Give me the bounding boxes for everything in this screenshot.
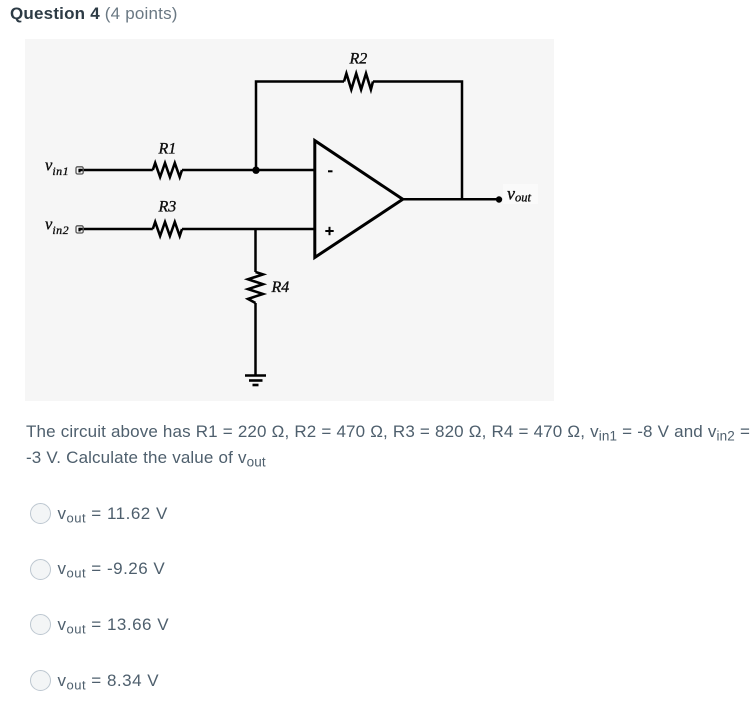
svg-text:R3: R3 (158, 199, 177, 216)
svg-text:R1: R1 (158, 141, 177, 158)
svg-text:vin2: vin2 (45, 214, 69, 237)
svg-text:R2: R2 (349, 51, 368, 68)
svg-text:vin1: vin1 (45, 155, 69, 178)
svg-text:R4: R4 (271, 279, 290, 296)
